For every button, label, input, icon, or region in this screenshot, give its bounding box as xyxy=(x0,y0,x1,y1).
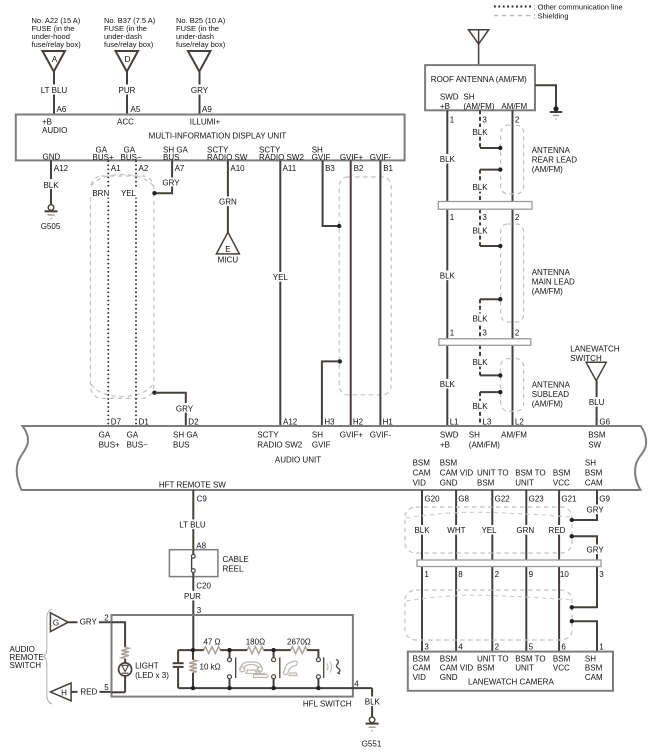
svg-text:A: A xyxy=(52,55,58,64)
svg-text:A11: A11 xyxy=(283,164,297,173)
svg-text:GRY: GRY xyxy=(586,545,604,554)
svg-text:1: 1 xyxy=(599,643,604,652)
svg-text:CABLE: CABLE xyxy=(223,555,249,564)
svg-text:1: 1 xyxy=(450,328,455,337)
svg-text:GND: GND xyxy=(440,479,458,488)
svg-text:ILLUMI+: ILLUMI+ xyxy=(190,118,221,127)
svg-text:1: 1 xyxy=(450,213,455,222)
svg-text:9: 9 xyxy=(529,570,534,579)
svg-text:H: H xyxy=(61,688,67,697)
svg-text:VCC: VCC xyxy=(553,664,570,673)
svg-text:RED: RED xyxy=(549,526,566,535)
svg-text:BSM TO: BSM TO xyxy=(515,469,545,478)
svg-text:GVIF+: GVIF+ xyxy=(340,431,364,440)
svg-text:+B: +B xyxy=(440,441,450,450)
svg-text:3: 3 xyxy=(197,606,202,615)
svg-text:3: 3 xyxy=(599,570,604,579)
svg-text:10 kΩ: 10 kΩ xyxy=(200,663,221,672)
svg-text:CAM VID: CAM VID xyxy=(440,469,474,478)
svg-text:SH: SH xyxy=(585,459,596,468)
svg-text:UNIT TO: UNIT TO xyxy=(477,654,509,663)
svg-text:GA: GA xyxy=(99,431,111,440)
svg-text:A10: A10 xyxy=(230,164,245,173)
svg-text:2: 2 xyxy=(495,643,500,652)
svg-text:BUS+: BUS+ xyxy=(99,441,120,450)
svg-text:10: 10 xyxy=(560,570,569,579)
svg-text:8: 8 xyxy=(458,570,463,579)
svg-text:(AM/FM): (AM/FM) xyxy=(532,165,563,174)
svg-text:BLK: BLK xyxy=(472,128,488,137)
svg-text:SWD: SWD xyxy=(440,92,459,101)
svg-text:BSM: BSM xyxy=(440,459,458,468)
svg-text:2: 2 xyxy=(495,570,500,579)
svg-text:A5: A5 xyxy=(131,105,141,114)
svg-text:2: 2 xyxy=(515,328,520,337)
svg-text:CAM: CAM xyxy=(585,673,603,682)
svg-text:RADIO SW2: RADIO SW2 xyxy=(257,441,302,450)
svg-text:47 Ω: 47 Ω xyxy=(203,638,220,647)
svg-text:BLK: BLK xyxy=(472,227,488,236)
svg-text:BSM: BSM xyxy=(477,664,495,673)
svg-text:GRY: GRY xyxy=(586,505,604,514)
svg-text:fuse/relay box): fuse/relay box) xyxy=(176,40,226,49)
svg-text:BSM: BSM xyxy=(477,479,495,488)
svg-text:BSM: BSM xyxy=(553,654,571,663)
svg-text:4: 4 xyxy=(354,679,359,688)
svg-text:3: 3 xyxy=(482,115,487,124)
svg-text:AM/FM: AM/FM xyxy=(501,102,527,111)
svg-text:G22: G22 xyxy=(495,494,511,503)
svg-text:G6: G6 xyxy=(599,418,610,427)
svg-text:6: 6 xyxy=(561,643,566,652)
svg-text:GRY: GRY xyxy=(191,86,209,95)
svg-text:BUS: BUS xyxy=(173,441,189,450)
svg-text:1: 1 xyxy=(450,115,455,124)
svg-text:ANTENNA: ANTENNA xyxy=(532,146,571,155)
svg-text:G8: G8 xyxy=(458,494,469,503)
svg-text:A9: A9 xyxy=(202,105,212,114)
svg-text:E: E xyxy=(225,245,230,254)
svg-text:G505: G505 xyxy=(41,222,61,231)
svg-text:A12: A12 xyxy=(54,164,69,173)
svg-text:CAM VID: CAM VID xyxy=(440,664,474,673)
svg-text:A8: A8 xyxy=(196,541,206,550)
svg-text:C20: C20 xyxy=(196,581,211,590)
svg-text:BSM: BSM xyxy=(413,459,431,468)
svg-text:2: 2 xyxy=(104,613,109,622)
svg-text:A12: A12 xyxy=(283,418,298,427)
svg-text:H1: H1 xyxy=(383,418,394,427)
svg-text:H3: H3 xyxy=(324,418,335,427)
svg-text:BUS+: BUS+ xyxy=(93,153,114,162)
svg-text:G: G xyxy=(53,619,59,628)
svg-text:1: 1 xyxy=(424,570,429,579)
svg-text:GA: GA xyxy=(127,431,139,440)
svg-text:BSM: BSM xyxy=(440,654,458,663)
svg-text:A2: A2 xyxy=(139,164,149,173)
svg-text:BSM TO: BSM TO xyxy=(515,654,545,663)
svg-text:ANTENNA: ANTENNA xyxy=(532,268,571,277)
svg-text:D7: D7 xyxy=(111,418,122,427)
svg-text:PUR: PUR xyxy=(119,86,136,95)
svg-text:SCTY: SCTY xyxy=(257,431,279,440)
svg-text:RADIO SW2: RADIO SW2 xyxy=(259,153,304,162)
svg-text:BLK: BLK xyxy=(365,698,381,707)
svg-text:2670Ω: 2670Ω xyxy=(287,638,311,647)
svg-text:SH GA: SH GA xyxy=(173,431,199,440)
svg-text:fuse/relay box): fuse/relay box) xyxy=(32,40,82,49)
svg-text:fuse/relay box): fuse/relay box) xyxy=(104,40,154,49)
svg-text:MULTI-INFORMATION DISPLAY UNIT: MULTI-INFORMATION DISPLAY UNIT xyxy=(149,131,287,140)
svg-text:5: 5 xyxy=(529,643,534,652)
svg-text:REEL: REEL xyxy=(223,565,244,574)
svg-text:BLU: BLU xyxy=(589,398,605,407)
svg-text:A6: A6 xyxy=(57,105,67,114)
svg-text:CAM: CAM xyxy=(585,479,603,488)
svg-text:BLK: BLK xyxy=(440,380,456,389)
svg-text:G23: G23 xyxy=(529,494,545,503)
svg-text:YEL: YEL xyxy=(121,189,137,198)
svg-text:BLK: BLK xyxy=(414,526,430,535)
svg-text:3: 3 xyxy=(424,643,429,652)
svg-text:REAR LEAD: REAR LEAD xyxy=(532,155,578,164)
svg-text:2: 2 xyxy=(515,213,520,222)
svg-text:B3: B3 xyxy=(325,164,335,173)
svg-text:GRN: GRN xyxy=(516,526,534,535)
svg-text:GVIF: GVIF xyxy=(312,153,331,162)
svg-text:GND: GND xyxy=(43,152,61,161)
svg-text:(AM/FM): (AM/FM) xyxy=(463,102,494,111)
svg-text:H2: H2 xyxy=(353,418,364,427)
svg-text:GND: GND xyxy=(440,673,458,682)
svg-text:GRN: GRN xyxy=(219,198,237,207)
svg-text:BSM: BSM xyxy=(585,469,603,478)
svg-text:BLK: BLK xyxy=(440,155,456,164)
svg-text:SW: SW xyxy=(588,441,601,450)
svg-text:BLK: BLK xyxy=(440,272,456,281)
svg-text:B1: B1 xyxy=(383,164,393,173)
svg-text:(AM/FM): (AM/FM) xyxy=(532,287,563,296)
svg-text:B2: B2 xyxy=(354,164,364,173)
svg-text:G9: G9 xyxy=(599,494,610,503)
svg-text:A1: A1 xyxy=(111,164,121,173)
svg-text:4: 4 xyxy=(458,643,463,652)
svg-text:LANEWATCH CAMERA: LANEWATCH CAMERA xyxy=(468,677,554,686)
svg-text:BLK: BLK xyxy=(472,358,488,367)
svg-text:L3: L3 xyxy=(482,418,491,427)
svg-text:WHT: WHT xyxy=(447,526,465,535)
svg-text:ROOF ANTENNA (AM/FM): ROOF ANTENNA (AM/FM) xyxy=(431,75,527,84)
svg-text:+B: +B xyxy=(440,102,450,111)
svg-text:GVIF-: GVIF- xyxy=(370,431,392,440)
svg-text:3: 3 xyxy=(482,328,487,337)
svg-text:GVIF: GVIF xyxy=(312,441,331,450)
svg-text:GRY: GRY xyxy=(162,178,180,187)
svg-text:ANTENNA: ANTENNA xyxy=(532,380,571,389)
svg-text:RED: RED xyxy=(80,687,97,696)
svg-text:180Ω: 180Ω xyxy=(246,638,265,647)
svg-text:GRY: GRY xyxy=(80,618,98,627)
svg-text:SH: SH xyxy=(469,431,480,440)
svg-text:: Other communication line: : Other communication line xyxy=(534,2,623,11)
svg-text:VID: VID xyxy=(413,673,427,682)
svg-text:G21: G21 xyxy=(561,494,577,503)
svg-text:D2: D2 xyxy=(188,418,199,427)
svg-text:G551: G551 xyxy=(362,740,382,749)
svg-text:VID: VID xyxy=(413,479,427,488)
svg-text:MAIN LEAD: MAIN LEAD xyxy=(532,278,575,287)
svg-text:MICU: MICU xyxy=(218,256,239,265)
svg-text:BSM: BSM xyxy=(413,654,431,663)
svg-text:SH: SH xyxy=(312,431,323,440)
svg-text:LANEWATCH: LANEWATCH xyxy=(570,345,620,354)
svg-text:UNIT TO: UNIT TO xyxy=(477,469,509,478)
svg-text:BSM: BSM xyxy=(553,469,571,478)
svg-text:SWITCH: SWITCH xyxy=(10,661,42,670)
svg-text:UNIT: UNIT xyxy=(515,479,534,488)
svg-text:AM/FM: AM/FM xyxy=(501,431,527,440)
svg-text:L2: L2 xyxy=(515,418,524,427)
svg-text:2: 2 xyxy=(515,115,520,124)
svg-text:L1: L1 xyxy=(450,418,459,427)
svg-text:YEL: YEL xyxy=(481,526,497,535)
svg-text:HFL SWITCH: HFL SWITCH xyxy=(303,700,352,709)
svg-text:BLK: BLK xyxy=(472,315,488,324)
svg-text:D: D xyxy=(125,55,131,64)
svg-text:G20: G20 xyxy=(425,494,441,503)
svg-text:BSM: BSM xyxy=(588,431,606,440)
svg-text:BUS−: BUS− xyxy=(121,153,142,162)
svg-text:5: 5 xyxy=(104,683,109,692)
svg-text:CAM: CAM xyxy=(413,664,431,673)
svg-text:BLK: BLK xyxy=(472,402,488,411)
svg-text:BSM: BSM xyxy=(585,664,603,673)
svg-text:CAM: CAM xyxy=(413,469,431,478)
svg-text:GRY: GRY xyxy=(176,404,194,413)
svg-text:(AM/FM): (AM/FM) xyxy=(532,399,563,408)
svg-text:LT BLU: LT BLU xyxy=(179,521,206,530)
svg-text:A7: A7 xyxy=(175,164,185,173)
svg-text:BLK: BLK xyxy=(43,181,59,190)
svg-text:LT BLU: LT BLU xyxy=(41,86,68,95)
svg-text:YEL: YEL xyxy=(273,273,289,282)
svg-text:SUBLEAD: SUBLEAD xyxy=(532,390,570,399)
svg-text:AUDIO UNIT: AUDIO UNIT xyxy=(275,455,321,464)
svg-text:BUS−: BUS− xyxy=(127,441,148,450)
svg-text:D1: D1 xyxy=(139,418,150,427)
svg-text:UNIT: UNIT xyxy=(515,664,534,673)
svg-text:SWD: SWD xyxy=(440,431,459,440)
svg-text:PUR: PUR xyxy=(184,592,201,601)
svg-text:(AM/FM): (AM/FM) xyxy=(469,441,500,450)
svg-text:BLK: BLK xyxy=(472,183,488,192)
svg-text:(LED x 3): (LED x 3) xyxy=(135,671,169,680)
svg-text:ACC: ACC xyxy=(117,118,134,127)
svg-text:LIGHT: LIGHT xyxy=(135,662,159,671)
svg-text:SH: SH xyxy=(585,654,596,663)
svg-text:AUDIO: AUDIO xyxy=(42,126,67,135)
svg-text:: Shielding: : Shielding xyxy=(534,11,569,20)
svg-text:SH: SH xyxy=(463,92,474,101)
svg-text:C9: C9 xyxy=(197,494,208,503)
svg-text:VCC: VCC xyxy=(553,479,570,488)
svg-text:HFT REMOTE SW: HFT REMOTE SW xyxy=(159,480,226,489)
svg-text:BRN: BRN xyxy=(92,189,109,198)
svg-text:3: 3 xyxy=(482,213,487,222)
